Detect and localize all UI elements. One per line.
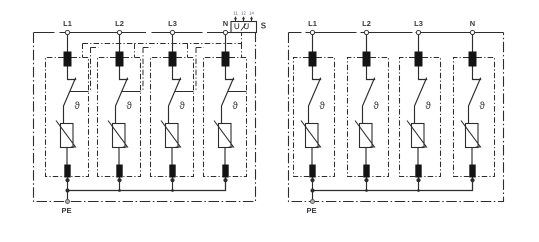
mechanical linkage drop of F3 xyxy=(187,44,189,58)
terminal X4 top (black block) xyxy=(222,52,230,67)
junction dot below terminal X1 xyxy=(65,178,69,182)
varistor RV2 (MOV) xyxy=(360,124,373,148)
junction dot below terminal X4 xyxy=(223,178,227,182)
terminal circle L2 xyxy=(117,30,121,34)
thermal disconnector F2 (switch blade) xyxy=(116,78,128,124)
thermal disconnector F1 (switch blade) xyxy=(309,78,321,124)
svg-text:L2: L2 xyxy=(362,19,371,28)
svg-text:ϑ: ϑ xyxy=(74,101,80,112)
changeover contact symbol inside S box xyxy=(235,23,239,28)
mechanical linkage drop of F2 xyxy=(134,44,136,58)
svg-text:11: 11 xyxy=(233,11,238,16)
mechanical linkage drop of F4 xyxy=(241,44,243,58)
PE bus wire xyxy=(68,180,226,190)
mechanical linkage tap of F1 xyxy=(70,91,89,93)
terminal X1 bottom (black block) xyxy=(309,165,315,178)
svg-text:ϑ: ϑ xyxy=(425,101,431,112)
varistor RV1 (MOV) xyxy=(61,124,74,148)
svg-text:N: N xyxy=(470,19,475,28)
module boundary (dash-dot box) branch 3 xyxy=(400,58,416,177)
junction dot PE bus branch 2 xyxy=(118,189,121,192)
terminal circle L3 xyxy=(416,30,420,34)
svg-text:ϑ: ϑ xyxy=(373,101,379,112)
module boundary (dash-dot box) branch 3 xyxy=(151,58,170,177)
terminal X1 bottom (black block) xyxy=(64,165,70,178)
left circuit: SPD with remote signalling contact xyxy=(34,11,267,216)
wire branch 4 terminal drop xyxy=(472,35,474,52)
terminal circle L3 xyxy=(170,30,174,34)
contact pin 12 with arrow xyxy=(243,17,245,21)
junction dot PE bus branch 1 xyxy=(311,189,315,193)
terminal X1 top (black block) xyxy=(309,52,317,67)
junction dot PE bus branch 3 xyxy=(171,189,174,192)
svg-text:ϑ: ϑ xyxy=(319,101,325,112)
module group boundary step (dash-dot) xyxy=(143,48,151,92)
terminal X3 top (black block) xyxy=(169,52,177,67)
module boundary (dash-dot box) branch 4 xyxy=(204,58,223,177)
device enclosure top edge / terminal bus xyxy=(289,32,504,34)
wire branch 1 to disconnector xyxy=(68,67,77,80)
remote signalling changeover contact S (box) xyxy=(231,22,257,33)
terminal X4 top (black block) xyxy=(469,52,477,67)
mechanical linkage tap of F2 xyxy=(122,91,141,93)
thermal disconnector F2 (switch blade) xyxy=(363,78,375,124)
terminal X1 top (black block) xyxy=(64,52,72,67)
svg-text:ϑ: ϑ xyxy=(479,101,485,112)
svg-text:ϑ: ϑ xyxy=(232,101,238,112)
wire branch 2 varistor to bottom terminal xyxy=(365,148,367,165)
terminal circle N xyxy=(223,30,227,34)
terminal circle L1 xyxy=(310,30,314,34)
wire branch 3 terminal drop xyxy=(418,35,420,52)
junction dot below terminal X3 xyxy=(170,178,174,182)
terminal X2 top (black block) xyxy=(363,52,371,67)
terminal X3 bottom (black block) xyxy=(169,165,175,178)
svg-text:L3: L3 xyxy=(414,19,423,28)
wire branch 1 to PE bus xyxy=(67,178,69,191)
terminal X4 bottom (black block) xyxy=(469,165,475,178)
device enclosure (outer dash-dot box, sides and bottom) xyxy=(289,33,504,202)
wire branch 4 varistor to bottom terminal xyxy=(471,148,473,165)
svg-text:14: 14 xyxy=(249,11,254,16)
wire branch 3 varistor to bottom terminal xyxy=(417,148,419,165)
module group boundary step (dash-dot) xyxy=(196,48,204,92)
wire PE drop xyxy=(312,191,314,200)
terminal circle PE xyxy=(66,200,70,204)
junction dot below terminal X2 xyxy=(117,178,121,182)
mechanical linkage rail to remote contact xyxy=(83,33,242,44)
wire branch 1 varistor to bottom terminal xyxy=(66,148,68,165)
mechanical linkage tap of F4 xyxy=(228,91,247,93)
terminal circle L2 xyxy=(364,30,368,34)
terminal X3 top (black block) xyxy=(415,52,423,67)
wire branch 1 to disconnector xyxy=(313,67,322,80)
varistor RV3 (MOV) xyxy=(412,124,425,148)
junction dot PE bus branch 3 xyxy=(417,189,420,192)
wire branch 2 to PE bus xyxy=(366,178,368,191)
wire branch 3 to PE bus xyxy=(172,178,174,191)
module boundary (dash-dot box) branch 1 xyxy=(46,58,65,177)
wire branch 2 varistor to bottom terminal xyxy=(118,148,120,165)
terminal X2 top (black block) xyxy=(116,52,124,67)
junction dot below terminal X3 xyxy=(416,178,420,182)
junction dot PE bus branch 2 xyxy=(365,189,368,192)
terminal X2 bottom (black block) xyxy=(116,165,122,178)
thermal disconnector F4 (switch blade) xyxy=(222,78,234,124)
wire branch 1 terminal drop xyxy=(67,35,69,52)
terminal circle PE xyxy=(311,200,315,204)
thermal disconnector F4 (switch blade) xyxy=(469,78,481,124)
wire branch 4 terminal drop xyxy=(225,35,227,52)
varistor RV3 (MOV) xyxy=(166,124,179,148)
terminal X2 bottom (black block) xyxy=(363,165,369,178)
contact pin 11 with arrow xyxy=(235,17,237,21)
svg-text:L1: L1 xyxy=(63,19,72,28)
svg-text:PE: PE xyxy=(306,206,316,215)
right circuit: SPD without remote signalling xyxy=(289,19,504,215)
module group boundary step (dash-dot) xyxy=(91,48,99,92)
wire branch 3 to disconnector xyxy=(173,67,182,80)
mechanical linkage tap of F3 xyxy=(175,91,194,93)
svg-text:ϑ: ϑ xyxy=(179,101,185,112)
svg-text:N: N xyxy=(223,19,228,28)
wire branch 4 to PE bus xyxy=(472,178,474,191)
svg-text:PE: PE xyxy=(61,206,71,215)
wire PE drop xyxy=(67,191,69,200)
wire branch 4 to disconnector xyxy=(473,67,482,80)
varistor RV1 (MOV) xyxy=(306,124,319,148)
wire branch 4 to PE bus xyxy=(225,178,227,191)
svg-text:L2: L2 xyxy=(115,19,124,28)
wire branch 2 to PE bus xyxy=(119,178,121,191)
svg-text:ϑ: ϑ xyxy=(126,101,132,112)
wire branch 3 to disconnector xyxy=(419,67,428,80)
wire branch 2 terminal drop xyxy=(366,35,368,52)
mechanical linkage drop of F1 xyxy=(82,44,84,58)
junction dot below terminal X1 xyxy=(310,178,314,182)
wire branch 2 to disconnector xyxy=(367,67,376,80)
varistor RV4 (MOV) xyxy=(466,124,479,148)
svg-text:S: S xyxy=(261,21,267,30)
wire branch 1 to PE bus xyxy=(312,178,314,191)
terminal X4 bottom (black block) xyxy=(222,165,228,178)
svg-text:L3: L3 xyxy=(168,19,177,28)
terminal X3 bottom (black block) xyxy=(415,165,421,178)
terminal circle N xyxy=(470,30,474,34)
wire branch 3 varistor to bottom terminal xyxy=(171,148,173,165)
terminal circle L1 xyxy=(65,30,69,34)
junction dot PE bus branch 1 xyxy=(66,189,70,193)
wire branch 3 terminal drop xyxy=(172,35,174,52)
wire branch 4 varistor to bottom terminal xyxy=(224,148,226,165)
module boundary (dash-dot box) branch 2 xyxy=(98,58,117,177)
varistor RV2 (MOV) xyxy=(113,124,126,148)
PE bus wire xyxy=(313,180,473,190)
contact pin 14 with arrow xyxy=(251,17,253,21)
device enclosure top edge / terminal bus xyxy=(34,32,256,34)
wire branch 1 varistor to bottom terminal xyxy=(311,148,313,165)
wire branch 1 terminal drop xyxy=(312,35,314,52)
device enclosure (outer dash-dot box, sides and bottom) xyxy=(34,33,256,202)
thermal disconnector F3 (switch blade) xyxy=(415,78,427,124)
thermal disconnector F1 (switch blade) xyxy=(64,78,76,124)
wire branch 4 to disconnector xyxy=(226,67,235,80)
wire branch 2 terminal drop xyxy=(119,35,121,52)
module boundary (dash-dot box) branch 2 xyxy=(348,58,364,177)
svg-text:L1: L1 xyxy=(308,19,317,28)
junction dot below terminal X4 xyxy=(470,178,474,182)
wire branch 2 to disconnector xyxy=(120,67,129,80)
svg-text:12: 12 xyxy=(241,11,246,16)
varistor RV4 (MOV) xyxy=(219,124,232,148)
thermal disconnector F3 (switch blade) xyxy=(169,78,181,124)
module boundary (dash-dot box) branch 4 xyxy=(454,58,470,177)
module boundary (dash-dot box) branch 1 xyxy=(294,58,310,177)
junction dot below terminal X2 xyxy=(364,178,368,182)
wire branch 3 to PE bus xyxy=(418,178,420,191)
